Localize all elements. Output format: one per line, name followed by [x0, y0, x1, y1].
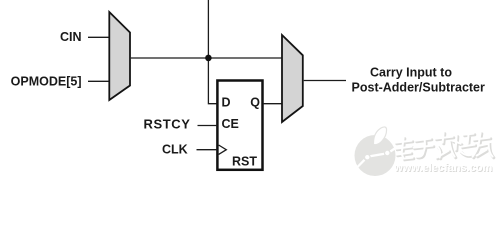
svg-text:Post-Adder/Subtracter: Post-Adder/Subtracter — [352, 81, 485, 95]
mux M2 (bypass / registered select) — [282, 35, 303, 122]
svg-text:RST: RST — [232, 154, 257, 168]
wire mux M2 output — [304, 80, 346, 82]
wire RSTCY to CE — [198, 125, 218, 127]
wire mux M1 output to mux M2 — [131, 57, 282, 59]
wire vertical from top through node to D input — [208, 0, 217, 104]
clock edge triangle — [219, 145, 227, 154]
svg-text:OPMODE[5]: OPMODE[5] — [11, 75, 82, 89]
wire CIN input — [88, 36, 110, 38]
wire CLK to clock pin — [197, 149, 218, 151]
wire Q output to mux M2 — [263, 103, 282, 105]
svg-text:www.elecfans.com: www.elecfans.com — [393, 162, 492, 174]
svg-text:Q: Q — [250, 96, 260, 110]
flip-flop register box — [217, 81, 262, 170]
svg-text:D: D — [222, 96, 231, 110]
mux M1 (CIN / OPMODE[5] select) — [109, 12, 130, 100]
svg-text:CIN: CIN — [60, 30, 82, 44]
svg-text:RSTCY: RSTCY — [144, 117, 191, 132]
wire OPMODE[5] input — [88, 80, 110, 82]
watermark logo elecfans — [355, 127, 396, 176]
svg-text:Carry Input to: Carry Input to — [370, 66, 452, 80]
svg-text:CE: CE — [222, 117, 239, 131]
svg-text:CLK: CLK — [162, 142, 188, 156]
node junction dot — [205, 55, 212, 62]
